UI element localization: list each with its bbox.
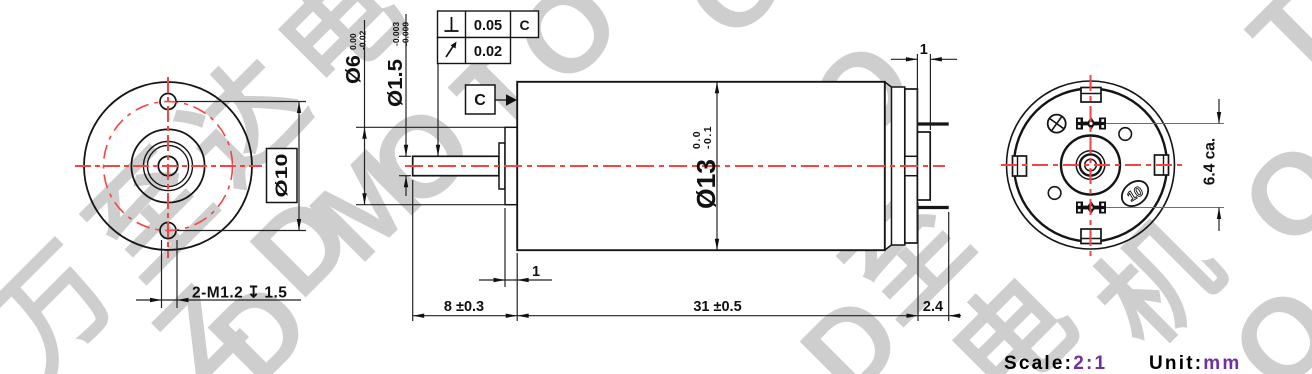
extension line left of bottom hole: [161, 240, 163, 308]
front view bottom mounting hole M1.2: [160, 223, 176, 239]
perpendicularity symbol: [451, 17, 453, 31]
dimension Ø1.5 with tolerance: [385, 14, 411, 196]
rear left tab: [1013, 156, 1027, 176]
rotated label Ø1.5 -0.003/-0.009: [385, 22, 411, 107]
leader line from bottom hole: [177, 230, 306, 232]
leader from frame to shaft: [437, 64, 439, 157]
datum C symbol: [466, 85, 518, 114]
rear crimp ring section: [892, 87, 905, 245]
rotated label Ø6 0.00/-0.02: [343, 30, 368, 84]
svg-text:C: C: [474, 92, 486, 109]
terminal top: [917, 122, 948, 125]
svg-text:Ø13: Ø13: [691, 159, 721, 209]
front view flange ring inner circle: [147, 145, 188, 186]
svg-text:C: C: [519, 17, 529, 33]
front view red horizontal centerline: [75, 165, 262, 167]
rear view (right): motor back cover: [1007, 81, 1175, 249]
extension line right of bottom hole: [176, 240, 178, 308]
front view shaft circle Ø1.5: [158, 156, 177, 175]
dimension Ø6 with tolerance: [343, 20, 505, 205]
rear center boss circle: [1061, 136, 1120, 195]
svg-text:8 ±0.3: 8 ±0.3: [444, 299, 484, 315]
screw head with cross: [1048, 115, 1066, 133]
extension tick bottom: [399, 175, 411, 177]
svg-text:Ø10: Ø10: [272, 154, 291, 198]
rotated label Ø13 0.0/-0.1: [691, 125, 721, 209]
rear red horizontal centerline: [1001, 164, 1182, 166]
feature control frame: perpendicularity 0.05 C and runout 0.02: [436, 11, 539, 156]
side view (middle): motor body: [405, 82, 949, 250]
svg-text:T: T: [1226, 0, 1312, 104]
rear red vertical centerline: [1090, 75, 1092, 256]
svg-text:-0.009: -0.009: [401, 22, 411, 46]
svg-text:6.4 ca.: 6.4 ca.: [1202, 138, 1219, 185]
leader line from top hole: [176, 101, 306, 103]
dimension Ø10 bolt circle: [176, 102, 306, 231]
front view red vertical centerline: [167, 77, 169, 258]
top dimension 1 rear bump: [891, 42, 957, 130]
dimension line: [364, 20, 366, 205]
rear bearing circle: [1076, 151, 1105, 180]
terminal bottom: [917, 206, 948, 209]
svg-text:0.00: 0.00: [348, 33, 358, 50]
rear right tab: [1155, 155, 1169, 175]
rear view outer circle: [1007, 81, 1175, 249]
svg-text:0.05: 0.05: [474, 18, 502, 34]
svg-text:31 ±0.5: 31 ±0.5: [693, 299, 741, 315]
svg-text:Scale:2:1: Scale:2:1: [1004, 353, 1107, 374]
front view flange ring outer circle: [144, 142, 193, 191]
extension line at shaft end x413: [412, 180, 414, 321]
svg-text:Ø6: Ø6: [343, 55, 365, 84]
small hole bottom left: [1048, 187, 1061, 200]
bottom chained dimensions 8, 1, 31, 2.4: [413, 180, 961, 321]
small hole top right: [1119, 128, 1132, 141]
motor body cylinder: [517, 82, 885, 250]
gray leader from bottom terminal: [1106, 207, 1224, 209]
extension line at boss x505: [504, 208, 506, 287]
end cap: [905, 89, 918, 243]
dimension leader line: [136, 299, 301, 301]
red horizontal centerline axis: [405, 165, 945, 167]
extension line at end cap x918: [917, 203, 919, 321]
front view bearing boss circle: [131, 129, 204, 202]
dimension 2-M1.2 depth 1.5 tapped holes: [136, 240, 301, 308]
svg-text:2-M1.2 ↧ 1.5: 2-M1.2 ↧ 1.5: [192, 285, 287, 302]
rear terminal symbol top: [1076, 117, 1106, 130]
dimension line Ø10: [298, 102, 300, 231]
datum filled triangle on body face: [506, 94, 517, 106]
rear chamfer top: [885, 82, 892, 87]
dimension line lower segment: [405, 176, 407, 196]
boxed label Ø10: [267, 149, 298, 203]
front view outer circle body Ø13: [84, 82, 252, 250]
svg-text:-0.003: -0.003: [391, 22, 401, 46]
svg-text:0.02: 0.02: [474, 44, 502, 60]
svg-text:1: 1: [532, 264, 540, 280]
rear bearing hub: [905, 156, 918, 175]
svg-text:Ø1.5: Ø1.5: [385, 59, 407, 107]
rear terminal symbol bottom: [1076, 201, 1106, 214]
front view red bolt circle Ø10 centerline circle: [104, 102, 233, 231]
svg-text:1: 1: [920, 42, 928, 58]
front view top mounting hole M1.2: [160, 94, 176, 110]
dimension 6.4 ca. terminal spacing: [1106, 99, 1224, 231]
main dimension line y=315.7: [413, 315, 961, 317]
rotor marking 10 oval: [1117, 176, 1153, 211]
rear cover bump: [917, 132, 930, 200]
gray leader from top terminal: [1106, 123, 1224, 125]
rear view inner rim circle: [1014, 89, 1167, 242]
circular runout symbol arrow: [446, 45, 454, 57]
shaft collar: [499, 143, 505, 189]
front boss Ø6: [505, 127, 517, 204]
dimension line upper segment: [405, 14, 407, 156]
extension tick top: [399, 155, 411, 157]
svg-text:O: O: [659, 0, 813, 63]
svg-text:O: O: [1217, 117, 1312, 271]
svg-text:Unit:mm: Unit:mm: [1149, 353, 1241, 374]
svg-text:-0.1: -0.1: [702, 125, 714, 149]
rear top tab: [1081, 88, 1101, 103]
dimension 1 boss length: [479, 279, 552, 281]
rear shaft end circle: [1085, 159, 1097, 171]
extension line at terminal tip x948.7: [948, 212, 950, 321]
rear bottom tab: [1081, 229, 1101, 244]
extension line at body face x517: [516, 253, 518, 321]
rear chamfer bottom: [885, 245, 892, 250]
rear bearing inner circle: [1080, 154, 1101, 175]
shaft Ø1.5: [413, 156, 499, 175]
svg-text:2.4: 2.4: [923, 299, 943, 315]
extension line bottom: [356, 204, 505, 206]
front view (left): motor face: [75, 77, 262, 258]
dimension Ø13 with tolerance: [691, 82, 721, 250]
svg-text:-0.02: -0.02: [358, 30, 368, 50]
extension line top: [356, 126, 505, 128]
dimension line: [1218, 99, 1220, 124]
title text Scale 2:1 Unit mm: [1004, 353, 1241, 374]
